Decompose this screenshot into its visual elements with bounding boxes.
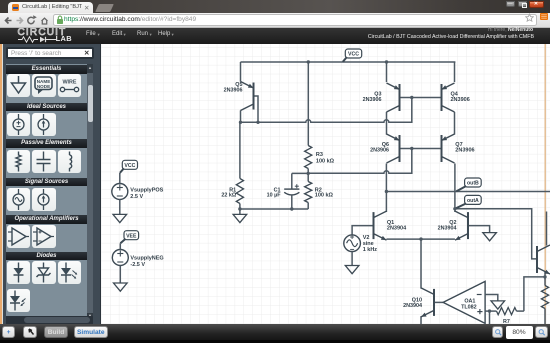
svg-text:22 kΩ: 22 kΩ: [221, 192, 236, 198]
svg-text:VCC: VCC: [348, 52, 359, 58]
svg-text:2N3906: 2N3906: [451, 97, 470, 103]
svg-text:-2.5 V: -2.5 V: [130, 262, 145, 268]
svg-text:NODE: NODE: [37, 84, 50, 89]
svg-text:2N3906: 2N3906: [224, 87, 243, 93]
svg-text:100 kΩ: 100 kΩ: [315, 193, 334, 199]
svg-text:VsupplyPOS: VsupplyPOS: [130, 187, 163, 193]
svg-text:1 kHz: 1 kHz: [363, 247, 378, 253]
svg-text:R3: R3: [316, 152, 323, 158]
svg-text:2N3906: 2N3906: [370, 148, 389, 154]
svg-text:10 µF: 10 µF: [267, 192, 282, 198]
svg-text:TL082: TL082: [461, 305, 477, 311]
svg-text:outA: outA: [467, 198, 479, 204]
svg-text:100 kΩ: 100 kΩ: [316, 158, 335, 164]
svg-text:2N3906: 2N3906: [455, 148, 474, 154]
svg-text:VCC: VCC: [124, 163, 135, 169]
svg-text:VsupplyNEG: VsupplyNEG: [130, 255, 163, 261]
svg-text:2N3904: 2N3904: [403, 303, 422, 309]
svg-text:2N3906: 2N3906: [363, 97, 382, 103]
svg-text:OA1: OA1: [464, 298, 475, 304]
svg-text:2N3904: 2N3904: [438, 226, 457, 232]
svg-text:2.5 V: 2.5 V: [130, 194, 143, 200]
svg-text:outB: outB: [467, 181, 479, 187]
svg-text:WIRE: WIRE: [62, 80, 76, 86]
svg-text:VEE: VEE: [126, 233, 137, 239]
svg-text:2N3904: 2N3904: [387, 226, 407, 232]
